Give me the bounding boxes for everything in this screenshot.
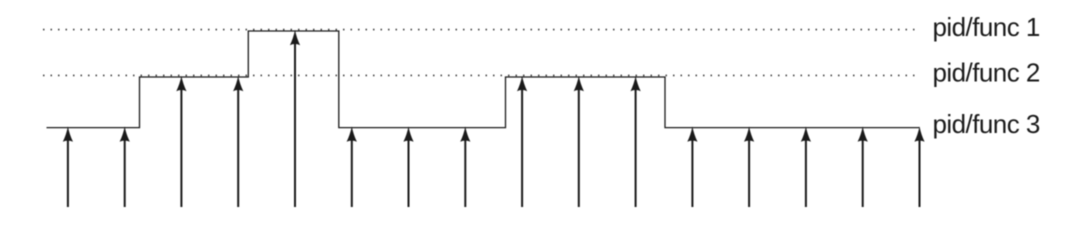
event arrow 13 (to pid/func 3) (744, 126, 754, 207)
event arrow 9 (to pid/func 2) (517, 76, 527, 207)
event arrow 14 (to pid/func 3) (801, 126, 811, 207)
svg-text:pid/func 2: pid/func 2 (933, 57, 1040, 87)
event arrow 8 (to pid/func 3) (460, 126, 470, 207)
svg-text:pid/func 3: pid/func 3 (933, 109, 1040, 139)
step trace line (pid/func level over time) (47, 31, 920, 128)
dotted reference line for pid/func 2 (43, 74, 919, 76)
event arrow 2 (to pid/func 3) (120, 126, 130, 207)
event arrow 6 (to pid/func 3) (347, 126, 357, 207)
event arrow 7 (to pid/func 3) (403, 126, 413, 207)
event arrow 4 (to pid/func 2) (233, 76, 243, 207)
event arrow 15 (to pid/func 3) (858, 126, 868, 207)
event arrow 16 (to pid/func 3) (914, 126, 924, 207)
event arrow 3 (to pid/func 2) (176, 76, 186, 207)
event arrow 5 (to pid/func 1) (290, 30, 300, 207)
dotted reference line for pid/func 1 (43, 29, 919, 31)
event arrow 10 (to pid/func 2) (574, 76, 584, 207)
event arrow 12 (to pid/func 3) (687, 126, 697, 207)
svg-text:pid/func 1: pid/func 1 (933, 12, 1040, 42)
event arrow 11 (to pid/func 2) (631, 76, 641, 207)
event arrow 1 (to pid/func 3) (63, 126, 73, 207)
